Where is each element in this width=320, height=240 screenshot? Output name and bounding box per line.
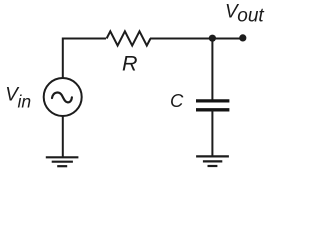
ground (left) <box>46 157 79 166</box>
sine symbol inside source <box>52 92 72 102</box>
terminal Vout <box>239 34 246 41</box>
wire: resistor to Vout terminal <box>150 38 243 40</box>
capacitor C <box>196 101 229 110</box>
wire: node to capacitor top plate <box>211 39 213 101</box>
wire: source top lead up and across to resistor <box>63 39 106 78</box>
resistor R <box>107 31 151 45</box>
node junction at top of capacitor <box>209 35 216 42</box>
svg-text:in: in <box>18 92 32 112</box>
svg-text:C: C <box>170 90 184 111</box>
AC source Vin <box>44 78 82 116</box>
wire: capacitor bottom plate to ground <box>211 110 213 156</box>
svg-text:out: out <box>237 6 264 27</box>
wire: source bottom lead <box>62 116 64 157</box>
svg-text:R: R <box>122 52 138 76</box>
ground (right) <box>196 156 229 166</box>
